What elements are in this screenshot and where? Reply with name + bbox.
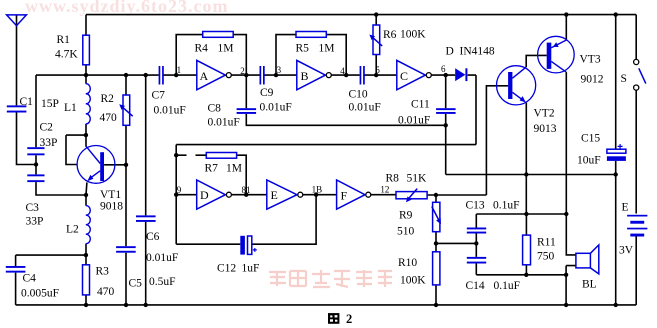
svg-text:C1: C1: [20, 96, 34, 108]
svg-text:4.7K: 4.7K: [55, 49, 78, 61]
svg-text:100K: 100K: [400, 29, 426, 41]
svg-text:D: D: [200, 188, 209, 202]
svg-text:VT3: VT3: [580, 54, 601, 66]
svg-text:C9: C9: [260, 87, 274, 99]
svg-text:VT2: VT2: [534, 108, 555, 120]
svg-text:IN4148: IN4148: [460, 46, 495, 58]
svg-text:S: S: [621, 73, 627, 85]
svg-text:1M: 1M: [319, 43, 335, 55]
svg-text:C12: C12: [217, 263, 236, 275]
svg-text:33P: 33P: [40, 137, 58, 149]
svg-text:R7: R7: [205, 162, 219, 174]
svg-text:0.1uF: 0.1uF: [493, 200, 520, 212]
svg-text:R2: R2: [101, 93, 115, 105]
svg-text:33P: 33P: [26, 216, 44, 228]
svg-text:0.01uF: 0.01uF: [208, 117, 240, 129]
svg-text:1: 1: [177, 65, 182, 75]
svg-text:9: 9: [177, 185, 182, 195]
svg-text:510: 510: [397, 226, 415, 238]
svg-text:C11: C11: [411, 99, 430, 111]
svg-text:C4: C4: [23, 273, 37, 285]
svg-text:0.1uF: 0.1uF: [494, 280, 521, 292]
svg-text:5: 5: [375, 65, 380, 75]
svg-text:4: 4: [340, 66, 345, 76]
svg-text:2: 2: [240, 66, 245, 76]
svg-text:12: 12: [380, 184, 389, 194]
svg-text:B: B: [301, 69, 309, 83]
svg-text:C13: C13: [466, 200, 485, 212]
svg-text:0.005uF: 0.005uF: [21, 288, 59, 300]
svg-text:www.sydzdiy.6to23.com: www.sydzdiy.6to23.com: [25, 0, 229, 16]
svg-text:1M: 1M: [218, 43, 234, 55]
svg-text:1B: 1B: [312, 184, 323, 194]
svg-text:100K: 100K: [400, 275, 426, 287]
svg-text:470: 470: [100, 112, 118, 124]
svg-text:C3: C3: [26, 202, 40, 214]
svg-text:0.01uF: 0.01uF: [398, 115, 430, 127]
svg-text:3: 3: [277, 65, 282, 75]
svg-text:R9: R9: [399, 210, 413, 222]
svg-text:2: 2: [346, 312, 352, 326]
svg-text:E: E: [271, 188, 278, 202]
svg-text:C14: C14: [466, 280, 485, 292]
svg-text:R10: R10: [398, 257, 417, 269]
svg-text:R4: R4: [195, 43, 209, 55]
svg-text:R3: R3: [96, 266, 110, 278]
svg-text:10uF: 10uF: [577, 155, 601, 167]
svg-text:9012: 9012: [581, 74, 604, 86]
svg-text:470: 470: [97, 286, 115, 298]
svg-text:A: A: [200, 69, 209, 83]
svg-text:750: 750: [537, 251, 555, 263]
svg-text:VT1: VT1: [100, 189, 121, 201]
svg-text:R1: R1: [57, 34, 71, 46]
svg-text:C10: C10: [349, 89, 368, 101]
svg-text:0.01uF: 0.01uF: [154, 105, 186, 117]
svg-text:F: F: [341, 189, 348, 203]
svg-text:15P: 15P: [41, 98, 59, 110]
svg-text:51K: 51K: [407, 173, 428, 185]
svg-text:0.01uF: 0.01uF: [349, 102, 381, 114]
svg-text:0.01uF: 0.01uF: [146, 252, 178, 264]
svg-text:E: E: [622, 202, 629, 214]
svg-text:L2: L2: [66, 224, 79, 236]
svg-text:L1: L1: [64, 102, 77, 114]
svg-text:0.5uF: 0.5uF: [149, 276, 176, 288]
svg-text:R11: R11: [537, 237, 556, 249]
svg-text:R5: R5: [296, 43, 310, 55]
svg-text:81: 81: [242, 185, 251, 195]
svg-text:9013: 9013: [534, 123, 557, 135]
svg-text:R6: R6: [383, 29, 397, 41]
svg-text:C7: C7: [152, 90, 166, 102]
svg-text:3V: 3V: [619, 245, 634, 257]
svg-text:6: 6: [441, 64, 446, 74]
svg-text:D: D: [446, 46, 454, 58]
svg-text:C15: C15: [581, 133, 600, 145]
svg-text:C8: C8: [208, 103, 222, 115]
svg-text:0.01uF: 0.01uF: [260, 102, 292, 114]
svg-text:R8: R8: [386, 173, 400, 185]
svg-text:C2: C2: [40, 122, 54, 134]
svg-text:9018: 9018: [100, 201, 123, 213]
svg-text:1M: 1M: [226, 162, 242, 174]
svg-text:C6: C6: [146, 231, 160, 243]
svg-text:1uF: 1uF: [242, 263, 260, 275]
svg-text:C: C: [400, 69, 408, 83]
svg-text:C5: C5: [129, 278, 143, 290]
svg-text:BL: BL: [582, 279, 597, 291]
